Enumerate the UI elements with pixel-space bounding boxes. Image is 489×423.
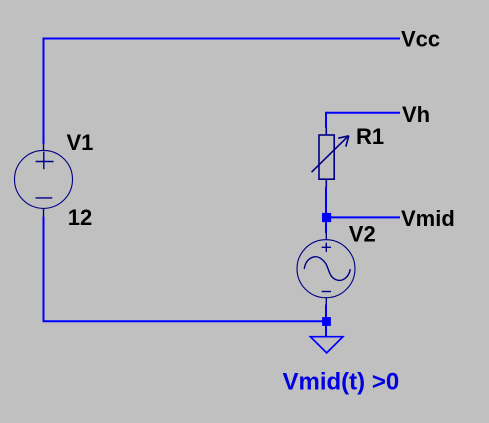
svg-text:V1: V1 xyxy=(67,130,94,155)
node Vmid junction xyxy=(322,213,331,222)
svg-text:V2: V2 xyxy=(349,222,376,247)
svg-text:Vh: Vh xyxy=(402,102,430,127)
ground xyxy=(310,337,343,353)
wire V1 bottom vertical xyxy=(43,217,45,323)
voltage source V1 xyxy=(15,144,73,217)
wire node to ground symbol xyxy=(325,325,327,337)
svg-text:Vmid: Vmid xyxy=(401,206,455,231)
node ground junction xyxy=(322,317,331,326)
wire R1 bottom to Vmid node xyxy=(325,187,327,218)
resistor R1 (variable, European body with arrow) xyxy=(312,128,349,188)
wire Vmid node to V2 top xyxy=(325,221,327,233)
svg-text:Vmid(t) >0: Vmid(t) >0 xyxy=(283,368,400,395)
wire V2 bottom to ground node xyxy=(325,305,327,323)
voltage source V2 (sine) xyxy=(297,233,355,305)
wire top horizontal (Vcc rail) xyxy=(44,38,401,40)
svg-text:12: 12 xyxy=(68,205,92,230)
wire Vh horizontal xyxy=(326,112,400,114)
svg-text:Vcc: Vcc xyxy=(401,27,440,52)
svg-text:R1: R1 xyxy=(356,124,384,149)
wire Vh vertical to R1 top xyxy=(325,112,327,128)
wire left vertical (Vcc to V1 top) xyxy=(43,38,45,145)
wire bottom horizontal xyxy=(43,320,328,322)
wire Vmid horizontal xyxy=(326,216,400,218)
